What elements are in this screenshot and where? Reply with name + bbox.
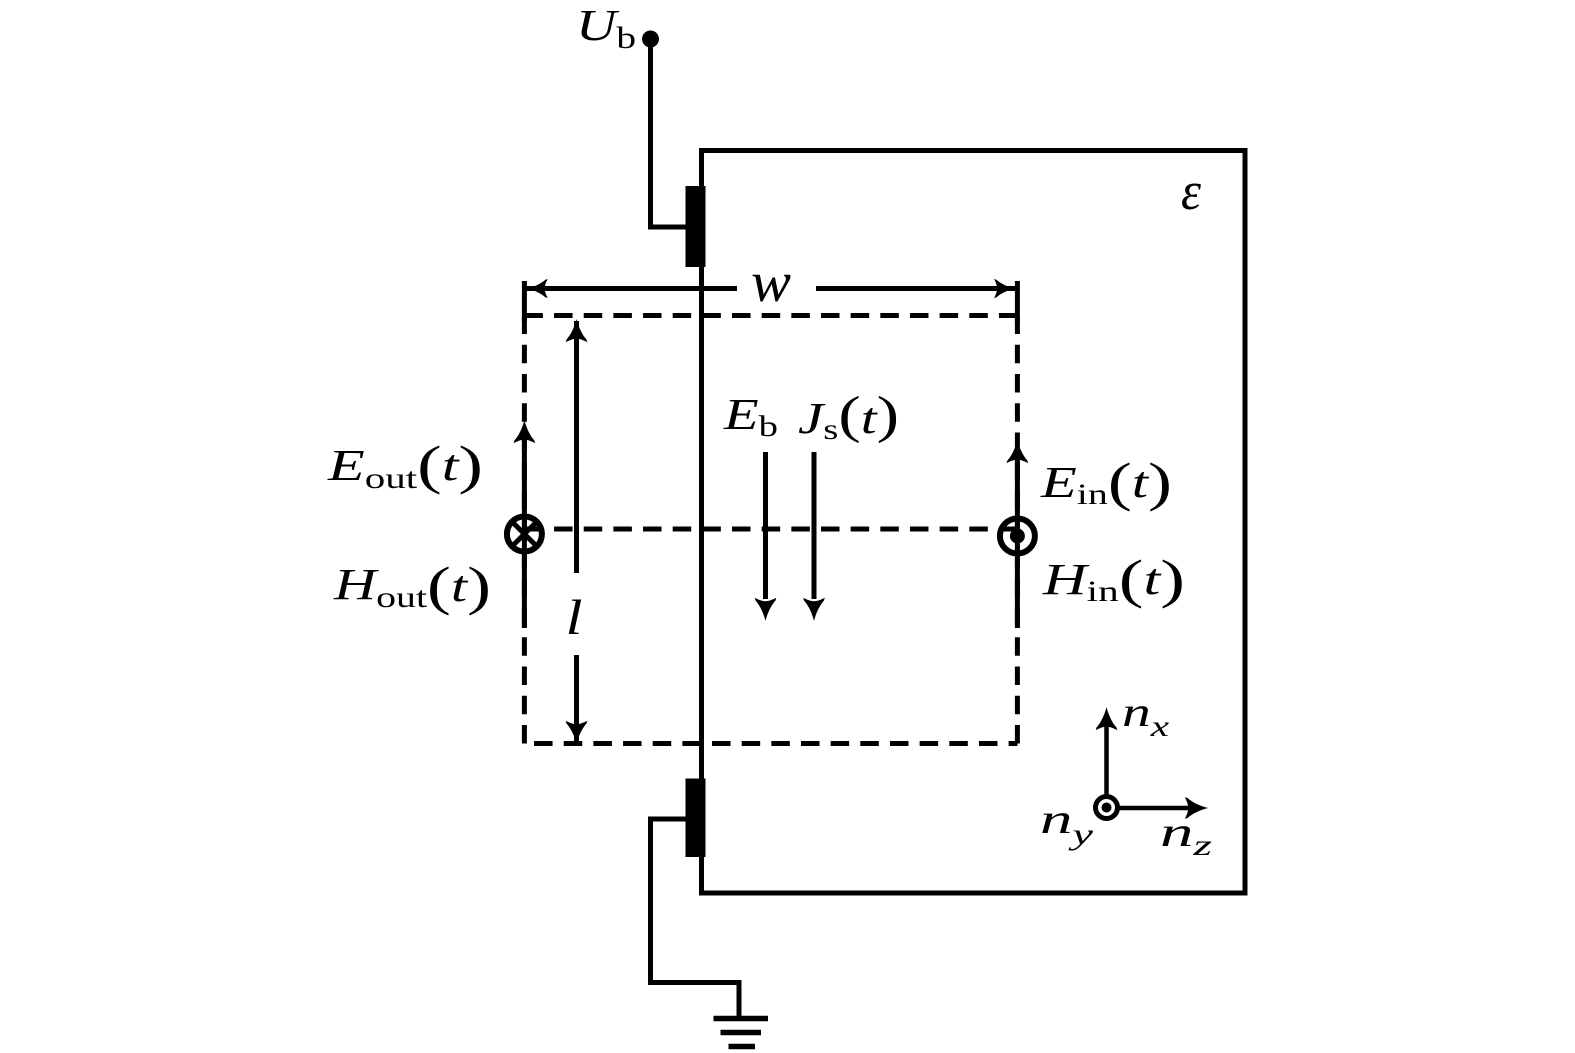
dimension w (524, 251, 1017, 322)
axis n_x arrow (1104, 725, 1109, 808)
field marker H_in (circle with dot, out of page) (1000, 519, 1035, 554)
axis n_z arrow (1107, 806, 1191, 811)
svg-text:Js(t): Js(t) (798, 387, 899, 446)
axis n_y marker (circle with dot) (1096, 797, 1118, 819)
arrow E_in (1007, 440, 1029, 628)
ground (714, 1019, 769, 1047)
dashed center line (524, 527, 1017, 532)
node U_b terminal dot (642, 31, 659, 48)
field marker H_out (circle with cross, into page) (507, 517, 542, 552)
dashed integration contour (524, 316, 1017, 744)
coordinate axes (1040, 690, 1212, 862)
svg-text:w: w (751, 251, 791, 314)
arrow J_s (803, 452, 825, 621)
bottom contact bar (686, 779, 706, 858)
dielectric slab epsilon (702, 151, 1246, 894)
svg-text:l: l (566, 589, 583, 645)
dimension l (566, 319, 588, 744)
top contact bar (686, 186, 706, 267)
svg-text:ε: ε (1181, 161, 1202, 221)
wire from U_b to top contact (651, 39, 689, 227)
arrow E_out (514, 420, 536, 628)
arrow E_b (755, 452, 777, 621)
wire from bottom contact to ground (651, 819, 740, 1016)
